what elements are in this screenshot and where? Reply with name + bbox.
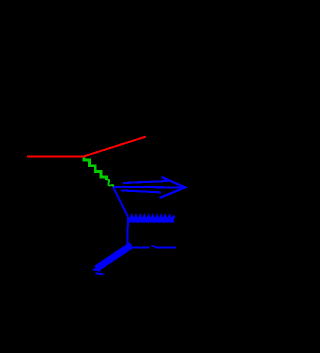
proton remnant thick band (blue) [97,245,132,269]
proton remnant line segment B (blue) [155,246,176,248]
exchanged photon wavy line (green) [84,157,107,180]
photon wavy tail (green) [107,180,114,187]
incoming electron line (red) [27,156,84,158]
struck quark line (blue) [113,187,128,217]
jet line bottom (blue) [121,190,161,192]
quark line down (blue) [126,217,129,247]
gluon coil teeth (blue) [129,216,174,221]
gluon coil (blue) [129,218,175,223]
jet line middle (blue) [114,186,184,189]
remnant arrowhead chevron (blue) [95,273,103,274]
scattered electron line (red) [84,137,146,157]
proton remnant line segment A (blue) [127,246,150,248]
remnant band pointed tip (blue) [92,264,101,272]
mid-line arrow on remnant line (blue) [151,246,156,247]
jet arrowhead chevron (blue) [160,177,186,198]
jet line top (blue) [123,181,168,183]
